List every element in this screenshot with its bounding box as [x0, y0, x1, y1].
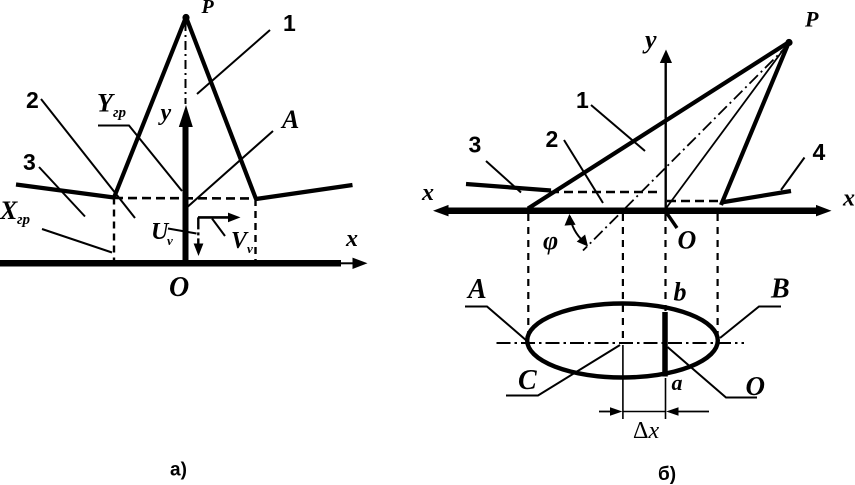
- svg-text:P: P: [201, 0, 215, 18]
- leader 1 (b): [591, 105, 645, 151]
- velocity corner: horizontal arrow Vv: [198, 213, 241, 223]
- leader A (a): [184, 131, 273, 210]
- x-axis (a): [0, 258, 368, 269]
- svg-text:2: 2: [26, 87, 39, 113]
- label Xgr: [0, 196, 31, 228]
- right wing (a): [256, 185, 353, 199]
- leader Vv: [212, 219, 225, 237]
- svg-text:б): б): [658, 464, 676, 485]
- svg-text:а): а): [170, 460, 187, 481]
- label Uv: [151, 219, 173, 248]
- svg-text:P: P: [804, 7, 819, 32]
- svg-text:φ: φ: [543, 226, 558, 255]
- svg-text:A: A: [466, 274, 487, 305]
- svg-text:x: x: [842, 186, 855, 212]
- dash-dot centre line from P to y-axis arrow: [185, 22, 187, 104]
- stub below origin: [666, 212, 677, 228]
- ellipse ground section: [527, 304, 718, 378]
- svg-text:Δx: Δx: [633, 418, 659, 444]
- left wing (b): [466, 184, 551, 191]
- dashed vertical from cone axis crossing to ellipse centre: [622, 214, 624, 342]
- dashed horizontal left of y-axis (b): [550, 191, 657, 194]
- label Ygr: [97, 89, 127, 122]
- dashed vertical at right vertex (a): [254, 199, 256, 262]
- leader 4 (b): [781, 158, 805, 191]
- cone left side (a): [114, 17, 186, 198]
- svg-text:O: O: [169, 272, 189, 303]
- svg-text:a: a: [672, 370, 683, 395]
- leader Uv: [168, 229, 197, 234]
- extension line below ellipse centre for dx: [622, 345, 624, 419]
- svg-text:гр: гр: [17, 212, 31, 228]
- svg-text:1: 1: [283, 10, 296, 36]
- thin line P-O: [666, 42, 790, 209]
- svg-text:1: 1: [576, 87, 589, 113]
- leader A (b): [465, 307, 527, 342]
- leader Xgr: [42, 229, 112, 253]
- dx measure arrow right: [666, 407, 709, 415]
- dashed vertical from right vertex to ellipse (b): [716, 214, 718, 336]
- svg-text:2: 2: [546, 126, 559, 152]
- y-axis (a): [179, 105, 193, 263]
- x-axis (b) with two arrows: [433, 205, 832, 217]
- dashed horizontal right of y-axis (b): [667, 200, 722, 203]
- leader 3 (a): [39, 167, 85, 217]
- phi angle arc with arrows: [565, 214, 589, 247]
- svg-text:A: A: [280, 105, 299, 134]
- leader 2 (a): [41, 99, 135, 218]
- svg-text:y: y: [158, 100, 172, 126]
- svg-text:v: v: [247, 241, 253, 256]
- svg-text:v: v: [167, 233, 173, 248]
- dashed vertical from origin to chord bar: [664, 214, 666, 311]
- svg-text:y: y: [642, 25, 657, 54]
- svg-text:b: b: [674, 278, 687, 307]
- dashed horizontal Ygr level: [114, 197, 256, 200]
- y-axis (b): [660, 50, 672, 210]
- cone right side (a): [186, 17, 256, 199]
- svg-text:3: 3: [23, 149, 36, 175]
- left wing curve 3 (a): [16, 185, 114, 198]
- leader Ygr (underline then diagonal): [98, 126, 182, 192]
- apex point P (b): [785, 39, 792, 46]
- right wing (b): [721, 191, 791, 203]
- apex point P (a): [182, 14, 189, 21]
- label Vv: [231, 228, 253, 256]
- thick chord bar b-a: [662, 312, 668, 377]
- dashed vertical at left vertex Xgr: [113, 198, 115, 263]
- dx measure arrow left: [599, 407, 622, 415]
- svg-text:4: 4: [813, 139, 826, 165]
- extension line below chord bar for dx: [665, 378, 667, 419]
- svg-text:x: x: [345, 226, 358, 252]
- svg-text:гр: гр: [113, 105, 127, 121]
- svg-text:3: 3: [469, 132, 482, 158]
- cone right side (b): [721, 42, 789, 205]
- dashed vertical from left vertex to ellipse (b): [527, 214, 529, 337]
- svg-text:X: X: [0, 196, 18, 225]
- svg-text:C: C: [518, 365, 537, 396]
- leader 3 (b): [486, 161, 521, 193]
- dash-dot cone axis through phi: [583, 44, 789, 251]
- dash-dot ellipse major axis: [497, 342, 745, 344]
- dx dimension line between tips: [623, 411, 666, 413]
- leader O lower (diagonal then underline): [668, 347, 758, 398]
- leader 2 (b): [564, 140, 603, 203]
- leader B (b): [720, 307, 781, 339]
- leader 1 (a): [197, 30, 270, 94]
- svg-text:B: B: [770, 274, 790, 305]
- svg-text:O: O: [678, 226, 697, 255]
- velocity down arrow Uv (dotted shaft): [194, 217, 204, 256]
- cone long left side / line 1 (b): [528, 42, 789, 209]
- leader C (underline then diagonal to centre): [506, 345, 620, 396]
- svg-text:x: x: [421, 180, 434, 206]
